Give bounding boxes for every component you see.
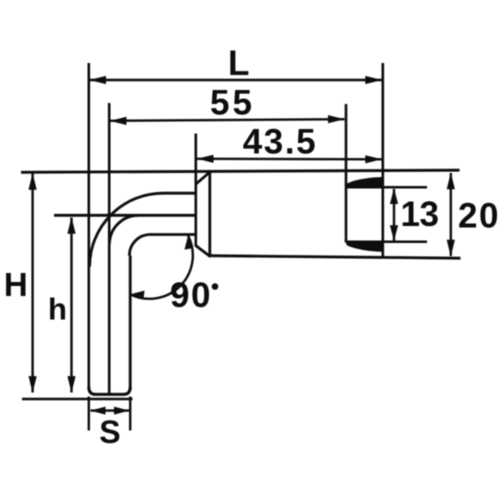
socket top-left chamfer <box>196 172 211 185</box>
dimension S line <box>91 409 130 411</box>
angle 90 leader arc <box>130 236 192 299</box>
H bottom extension line <box>22 398 133 400</box>
dimension L left arrowhead <box>89 76 106 84</box>
dimension H top arrowhead <box>29 173 37 190</box>
S extension line left <box>88 397 90 431</box>
dimension h bottom arrowhead <box>67 376 75 393</box>
svg-text:L: L <box>228 44 249 83</box>
socket bottom edge / 20 bottom extension line <box>209 256 461 259</box>
dimension 20 bottom arrowhead <box>447 240 455 257</box>
dimension 55 left arrowhead <box>110 117 127 125</box>
svg-text:S: S <box>99 414 120 450</box>
svg-text:20: 20 <box>458 197 500 236</box>
dimension 43.5 left arrowhead <box>197 155 214 163</box>
socket left face / 43.5 extension line <box>195 134 198 247</box>
dimension h line <box>70 218 72 393</box>
svg-text:13: 13 <box>401 195 439 234</box>
dimension H line <box>31 174 33 393</box>
socket chamfer edge vertical <box>208 172 211 257</box>
dimension 13 top arrowhead <box>390 188 398 204</box>
angle arc left arrowhead <box>130 291 144 300</box>
socket opening bottom line / 13 bottom extension line <box>346 241 427 244</box>
dimension L right arrowhead <box>365 76 382 84</box>
wire horizontal shaft middle hex line / h extension line <box>54 214 197 217</box>
socket nose bottom chamfer wedge <box>346 242 384 252</box>
bend outer arc <box>90 193 163 266</box>
wire shaft left edge / L extension line <box>88 63 91 390</box>
socket nose top chamfer wedge <box>346 177 384 187</box>
angle arc top arrowhead <box>185 235 193 250</box>
dimension S right arrowhead <box>114 407 129 415</box>
dimension 20 top arrowhead <box>447 173 455 190</box>
bend inner arc <box>129 235 150 256</box>
socket right face / L right extension line <box>381 63 384 258</box>
dimension 20 line <box>450 173 452 256</box>
dimension h top arrowhead <box>67 217 75 234</box>
svg-text:55: 55 <box>210 84 255 123</box>
dimension 55 line <box>110 119 345 121</box>
dimension 13 line <box>393 189 395 241</box>
S extension line right <box>129 397 131 431</box>
dimension 43.5 right arrowhead <box>365 155 382 163</box>
svg-text:H: H <box>4 266 28 303</box>
bend middle arc <box>109 215 138 244</box>
dimension 55 right arrowhead <box>328 115 345 123</box>
wire horizontal shaft top edge <box>163 192 197 195</box>
wire shaft middle hex line / 55 extension line <box>108 103 111 394</box>
dimension H bottom arrowhead <box>29 376 37 393</box>
wire shaft right edge <box>129 256 132 391</box>
dimension 13 bottom arrowhead <box>390 225 398 241</box>
dimension L line <box>90 79 382 81</box>
dimension S left arrowhead <box>90 407 105 415</box>
wire shaft bottom edge <box>89 387 130 394</box>
svg-text:90: 90 <box>170 276 212 315</box>
svg-text:h: h <box>48 292 67 327</box>
dimension 43.5 line <box>197 158 382 161</box>
wire top silhouette / H extension line <box>21 170 460 172</box>
degree symbol of 90 <box>212 283 219 290</box>
socket bottom-left chamfer <box>196 246 211 257</box>
socket opening top line / 13 top extension line <box>346 186 427 189</box>
wire horizontal shaft bottom edge <box>150 233 197 236</box>
socket hole bottom line / 55 right extension line <box>345 104 348 243</box>
svg-text:43.5: 43.5 <box>243 123 318 162</box>
